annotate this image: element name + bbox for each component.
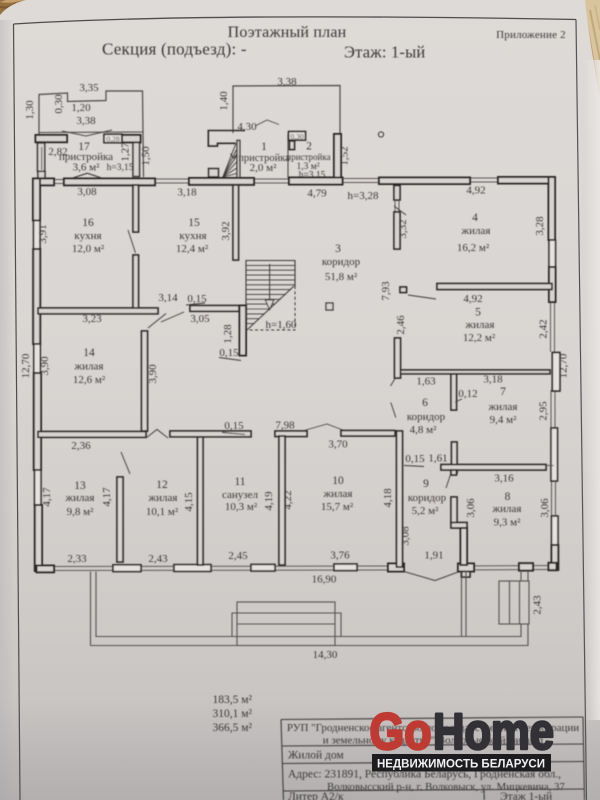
wall: stair-room1 divider	[237, 140, 240, 177]
svg-text:3,32: 3,32	[397, 219, 409, 238]
window: bottom w3	[251, 564, 275, 571]
svg-text:3,05: 3,05	[190, 313, 210, 325]
stamp circle	[378, 132, 383, 137]
svg-text:2,46: 2,46	[395, 315, 407, 335]
svg-text:12,70: 12,70	[558, 353, 570, 378]
svg-text:Секция (подъезд): -: Секция (подъезд): -	[102, 40, 247, 59]
header	[102, 24, 566, 62]
window box 0,30	[289, 132, 306, 141]
totals + table	[213, 694, 585, 800]
svg-text:1,61: 1,61	[428, 453, 447, 465]
svg-text:11: 11	[234, 476, 245, 488]
wall: divider 6/7 lower	[452, 442, 458, 473]
svg-text:3,06: 3,06	[539, 498, 551, 518]
annex 17 outline	[39, 91, 144, 177]
wall: divider 3/4 top	[394, 186, 400, 201]
svg-text:1: 1	[261, 141, 267, 153]
svg-text:12: 12	[156, 479, 168, 491]
svg-text:1,30: 1,30	[24, 100, 36, 120]
svg-text:санузел: санузел	[222, 489, 259, 501]
steps: tread line	[237, 623, 335, 625]
svg-text:7,98: 7,98	[275, 420, 295, 432]
wall: left pier 4	[35, 505, 42, 571]
svg-text:9,8 м²: 9,8 м²	[67, 506, 94, 518]
door swing 13	[121, 452, 130, 474]
door chamfer room 12	[146, 430, 168, 439]
svg-text:4,17: 4,17	[101, 487, 113, 507]
svg-text:1,40: 1,40	[218, 91, 230, 111]
svg-text:0,15: 0,15	[219, 347, 239, 359]
post: stair base	[209, 169, 219, 177]
annex 1-2 outline	[233, 86, 340, 135]
svg-text:жилая: жилая	[148, 492, 178, 504]
svg-text:3,23: 3,23	[82, 313, 102, 325]
svg-text:жилая: жилая	[488, 401, 518, 413]
svg-text:3,38: 3,38	[277, 76, 297, 88]
post: annex17 sw	[38, 171, 45, 178]
column mark	[326, 303, 333, 310]
svg-text:3,91: 3,91	[37, 224, 49, 243]
svg-text:2,33: 2,33	[67, 553, 87, 565]
wall: top segment F	[498, 177, 553, 184]
wall: step block below pier	[462, 572, 471, 578]
svg-text:0,30: 0,30	[290, 132, 303, 141]
svg-text:15,7 м²: 15,7 м²	[321, 501, 354, 513]
table left border	[281, 720, 284, 800]
svg-text:пристройка: пристройка	[286, 152, 330, 162]
wall: annex17 north-left pier	[36, 135, 68, 142]
svg-text:жилая: жилая	[492, 503, 522, 515]
wall: bottom pier at corridor	[388, 564, 404, 572]
wall: room7 bottom	[441, 465, 546, 471]
document frame	[14, 17, 577, 24]
window: right mid block	[552, 353, 560, 392]
svg-text:коридор: коридор	[408, 492, 447, 504]
svg-text:4,19: 4,19	[263, 491, 275, 511]
wall: bottom-right corner	[549, 563, 557, 570]
svg-text:12,6 м²: 12,6 м²	[73, 374, 106, 386]
wall: divider 11/10	[279, 436, 285, 565]
wall: closet step	[451, 523, 467, 529]
svg-text:2,45: 2,45	[228, 550, 248, 562]
svg-text:1,52: 1,52	[339, 146, 351, 165]
svg-text:12,4 м²: 12,4 м²	[176, 243, 209, 255]
svg-text:жилая: жилая	[74, 361, 104, 373]
arrow 0,15 room11	[222, 433, 245, 435]
window: right w2	[551, 428, 558, 481]
entrance recess chamfer	[404, 572, 458, 581]
svg-text:5: 5	[475, 307, 481, 319]
window: left w2	[34, 344, 41, 373]
break squiggle	[304, 424, 344, 431]
wall: stair west	[240, 306, 247, 356]
sill lines bottom wall	[40, 566, 553, 571]
door swings corridor 6	[391, 379, 396, 387]
wall: corridor3 east piece	[395, 338, 401, 378]
wall: small post below	[451, 470, 457, 475]
steps: tread line wide	[232, 613, 341, 637]
table right border	[583, 717, 585, 800]
svg-text:183,5 м²: 183,5 м²	[213, 694, 253, 706]
svg-text:3,18: 3,18	[177, 187, 197, 199]
wall: top segment C	[189, 178, 254, 185]
svg-text:3,38: 3,38	[76, 115, 96, 127]
wall: bottom pier 2	[519, 563, 533, 570]
svg-text:1,63: 1,63	[416, 376, 436, 388]
window: right w1	[549, 240, 556, 267]
svg-text:коридор: коридор	[322, 256, 361, 268]
porch outer outline	[91, 572, 529, 646]
wall: block at corridor	[400, 287, 407, 293]
svg-text:366,5 м²: 366,5 м²	[213, 722, 253, 734]
sill lines top wall	[54, 178, 498, 184]
svg-text:3: 3	[335, 243, 341, 255]
svg-text:3,90: 3,90	[39, 356, 51, 376]
svg-text:2: 2	[306, 141, 312, 153]
svg-text:4,15: 4,15	[183, 492, 195, 512]
wall: divider 14/3	[142, 331, 148, 431]
stairs: outline	[246, 261, 295, 331]
wall: bottom-left corner	[37, 566, 55, 573]
svg-text:2,43: 2,43	[532, 595, 544, 615]
window: left w3	[35, 470, 42, 505]
svg-text:14,30: 14,30	[313, 649, 338, 661]
svg-text:14: 14	[83, 347, 95, 359]
svg-text:310,1 м²: 310,1 м²	[213, 708, 253, 720]
wall: right pier 2	[549, 267, 556, 302]
wall: room4 bottom	[437, 284, 552, 290]
leader 4,92	[408, 295, 436, 299]
wall: divider 16/15 upper	[133, 185, 139, 232]
svg-text:3,06: 3,06	[465, 498, 477, 518]
svg-text:0,28: 0,28	[106, 135, 119, 144]
svg-text:Этаж 1-ый: Этаж 1-ый	[500, 791, 552, 800]
svg-text:3,14: 3,14	[158, 292, 178, 304]
wall: divider 3/4 lower	[394, 212, 400, 249]
wall: divider 13/12	[117, 477, 123, 562]
wall: annex east	[334, 134, 341, 178]
svg-text:Этаж: 1-ый: Этаж: 1-ый	[344, 43, 425, 62]
wall: top segment A	[33, 179, 54, 186]
window: left w1	[34, 221, 41, 250]
leader for 4,30	[256, 120, 279, 126]
leader 0,12	[455, 399, 462, 402]
svg-text:Литер А2/к: Литер А2/к	[288, 791, 344, 800]
svg-text:4,17: 4,17	[41, 487, 53, 507]
svg-text:3,16: 3,16	[494, 473, 514, 485]
wall: top segment E	[379, 178, 470, 185]
logo	[370, 703, 555, 772]
leader under 3,38	[62, 130, 112, 136]
svg-text:4,79: 4,79	[307, 188, 327, 200]
svg-text:1,50: 1,50	[140, 146, 152, 166]
wall: right pier 1	[549, 177, 556, 240]
svg-text:12,70: 12,70	[20, 353, 32, 378]
wall: annex17 north-right pier	[122, 135, 141, 142]
svg-text:9,3 м²: 9,3 м²	[494, 517, 521, 529]
svg-text:1,27: 1,27	[120, 142, 132, 162]
steps: center outer rect	[237, 602, 335, 646]
window: annex17 west mid line	[41, 147, 43, 170]
table column divider	[483, 790, 485, 800]
wall: annex17 west	[38, 143, 45, 171]
stairs: annex fan treads	[223, 144, 237, 177]
window: bottom w1	[113, 565, 141, 572]
wall: room17 east	[133, 143, 140, 177]
wall: top segment D under annex	[289, 178, 343, 185]
table row line 3	[283, 789, 584, 791]
svg-text:0,30: 0,30	[53, 94, 65, 114]
floor plan	[20, 76, 570, 586]
svg-text:Go: Go	[370, 703, 432, 760]
stairs: dashed cut	[246, 286, 295, 330]
svg-text:2,42: 2,42	[538, 319, 550, 338]
svg-text:6: 6	[422, 397, 428, 409]
door swing 14	[148, 314, 166, 329]
svg-text:4,22: 4,22	[282, 490, 294, 509]
svg-text:4,92: 4,92	[466, 185, 485, 197]
wall: room5 bottom	[399, 370, 550, 374]
door divider 3/4	[394, 200, 396, 212]
wall: left pier 2	[33, 249, 40, 344]
break leader over wall at 3,08	[73, 173, 101, 178]
svg-text:Жилой дом: Жилой дом	[288, 750, 344, 762]
svg-text:0,15: 0,15	[405, 453, 425, 465]
door swing 16	[128, 230, 136, 253]
svg-text:3,70: 3,70	[328, 439, 348, 451]
stairs: down arrow	[269, 264, 271, 300]
wall: divider 16/15 lower	[133, 255, 139, 313]
window box 0,28	[104, 134, 122, 142]
svg-text:3,08: 3,08	[77, 186, 97, 198]
svg-text:3,6 м²: 3,6 м²	[73, 162, 100, 174]
steps: side tread 2	[519, 581, 521, 624]
wall: divider 6/7 upper	[451, 374, 457, 410]
wall: door post room 2	[290, 141, 295, 150]
svg-text:0,12: 0,12	[458, 388, 477, 400]
porch right neck outer	[527, 571, 529, 581]
svg-text:3,18: 3,18	[483, 374, 503, 386]
svg-text:кухня: кухня	[179, 230, 206, 242]
svg-text:51,8 м²: 51,8 м²	[325, 271, 358, 283]
svg-text:10,1 м²: 10,1 м²	[146, 506, 179, 518]
background table surface	[0, 0, 600, 120]
svg-text:15: 15	[188, 217, 200, 229]
window: bottom w2	[174, 565, 211, 572]
svg-text:h=1,60: h=1,60	[266, 319, 297, 331]
svg-text:1,20: 1,20	[71, 102, 91, 114]
svg-text:3,35: 3,35	[79, 82, 99, 94]
wall: divider 12/11	[198, 437, 204, 565]
svg-text:1,28: 1,28	[222, 324, 234, 344]
steps: side steps rect	[499, 581, 529, 624]
svg-text:Приложение 2: Приложение 2	[496, 29, 566, 41]
svg-text:1,91: 1,91	[424, 550, 443, 562]
porch right neck inner	[520, 571, 522, 581]
svg-text:2,43: 2,43	[148, 553, 168, 565]
svg-text:0,15: 0,15	[224, 420, 244, 432]
svg-text:13: 13	[74, 480, 86, 492]
svg-text:жилая: жилая	[323, 488, 353, 500]
svg-text:3,28: 3,28	[534, 216, 546, 236]
wall: kitchens bottom left	[38, 308, 158, 314]
svg-text:коридор: коридор	[407, 411, 446, 423]
svg-text:2,95: 2,95	[538, 401, 550, 421]
window: right w3	[552, 516, 559, 545]
svg-text:Home: Home	[433, 703, 554, 760]
svg-text:3,08: 3,08	[400, 526, 412, 546]
stair bench outline	[208, 131, 245, 147]
table row line 2	[282, 762, 584, 764]
svg-text:2,36: 2,36	[71, 440, 91, 452]
wall: left pier 3	[34, 373, 41, 470]
svg-text:10,3 м²: 10,3 м²	[225, 501, 258, 513]
svg-text:жилая: жилая	[65, 492, 95, 504]
porch	[91, 571, 544, 661]
wall: right pier bottom	[552, 545, 559, 570]
wall: top segment B	[64, 179, 155, 186]
wall: closet west lower	[461, 528, 468, 565]
svg-text:жилая: жилая	[461, 225, 491, 237]
stairs: treads	[246, 261, 295, 324]
svg-text:4: 4	[472, 212, 478, 224]
svg-text:НЕДВИЖИМОСТЬ БЕЛАРУСИ: НЕДВИЖИМОСТЬ БЕЛАРУСИ	[377, 757, 545, 771]
svg-text:3,90: 3,90	[147, 364, 159, 384]
svg-text:жилая: жилая	[465, 319, 495, 331]
table row line 1	[282, 744, 584, 746]
svg-text:12,0 м²: 12,0 м²	[72, 243, 105, 255]
svg-text:4,92: 4,92	[463, 293, 482, 305]
stairs: annex arrow head	[231, 154, 237, 159]
leader 0,15 stair	[219, 358, 241, 361]
svg-text:16: 16	[82, 217, 94, 229]
svg-text:2,0 м²: 2,0 м²	[250, 162, 277, 174]
wall: left pier 1	[33, 179, 40, 221]
carpet texture top-left	[0, 0, 600, 95]
leader for 3,05	[161, 312, 184, 322]
svg-text:h=3,15: h=3,15	[107, 163, 134, 173]
stairs: diagonal cut line	[247, 286, 294, 330]
wall: closet west upper	[451, 497, 457, 523]
svg-text:h=3,28: h=3,28	[348, 190, 379, 202]
wall: room14 bottom	[38, 432, 146, 438]
underline 0,15	[404, 466, 424, 467]
steps: side tread 1	[509, 581, 511, 624]
svg-text:8: 8	[505, 491, 511, 503]
logo banner	[372, 754, 551, 772]
svg-text:12,2 м²: 12,2 м²	[463, 332, 496, 344]
svg-text:9,4 м²: 9,4 м²	[490, 414, 517, 426]
svg-text:Поэтажный план: Поэтажный план	[228, 24, 347, 41]
sill lines right wall	[551, 302, 556, 516]
wall: divider rooms 1/2	[287, 134, 289, 178]
wall: room7 bottom thin tail	[546, 465, 554, 467]
wall: corridor south segment 3	[275, 431, 307, 437]
svg-text:16,2 м²: 16,2 м²	[457, 242, 490, 254]
porch divider double line	[461, 572, 463, 637]
svg-text:7,93: 7,93	[380, 281, 392, 301]
svg-text:9: 9	[423, 478, 429, 490]
svg-text:7: 7	[500, 386, 506, 398]
wall: bottom pier right of entrance	[458, 564, 474, 572]
window: bottom w4	[334, 564, 357, 571]
wall: divider 10/9	[397, 431, 403, 567]
wall: corridor south segment 4	[341, 431, 395, 437]
table top border	[281, 717, 583, 720]
table borders	[281, 717, 585, 800]
door leader room8	[446, 470, 452, 488]
svg-text:3,92: 3,92	[220, 221, 232, 240]
svg-text:10: 10	[332, 475, 344, 487]
wall: divider 15/3	[233, 185, 239, 260]
annex 17 room top line	[39, 131, 143, 134]
svg-text:кухня: кухня	[74, 230, 101, 242]
svg-text:4,8 м²: 4,8 м²	[410, 424, 437, 436]
svg-text:5,2 м²: 5,2 м²	[412, 505, 439, 517]
wall: corridor south, segment 1	[37, 431, 39, 433]
wall: corridor south segment 2	[170, 431, 251, 437]
svg-text:3,76: 3,76	[330, 550, 350, 562]
svg-text:16,90: 16,90	[312, 574, 337, 586]
svg-text:4,18: 4,18	[382, 488, 394, 508]
leader 3,32	[394, 206, 406, 215]
porch inner outline	[96, 572, 521, 637]
svg-text:2,82: 2,82	[48, 146, 67, 158]
wall: kitchens bottom right	[190, 306, 239, 312]
